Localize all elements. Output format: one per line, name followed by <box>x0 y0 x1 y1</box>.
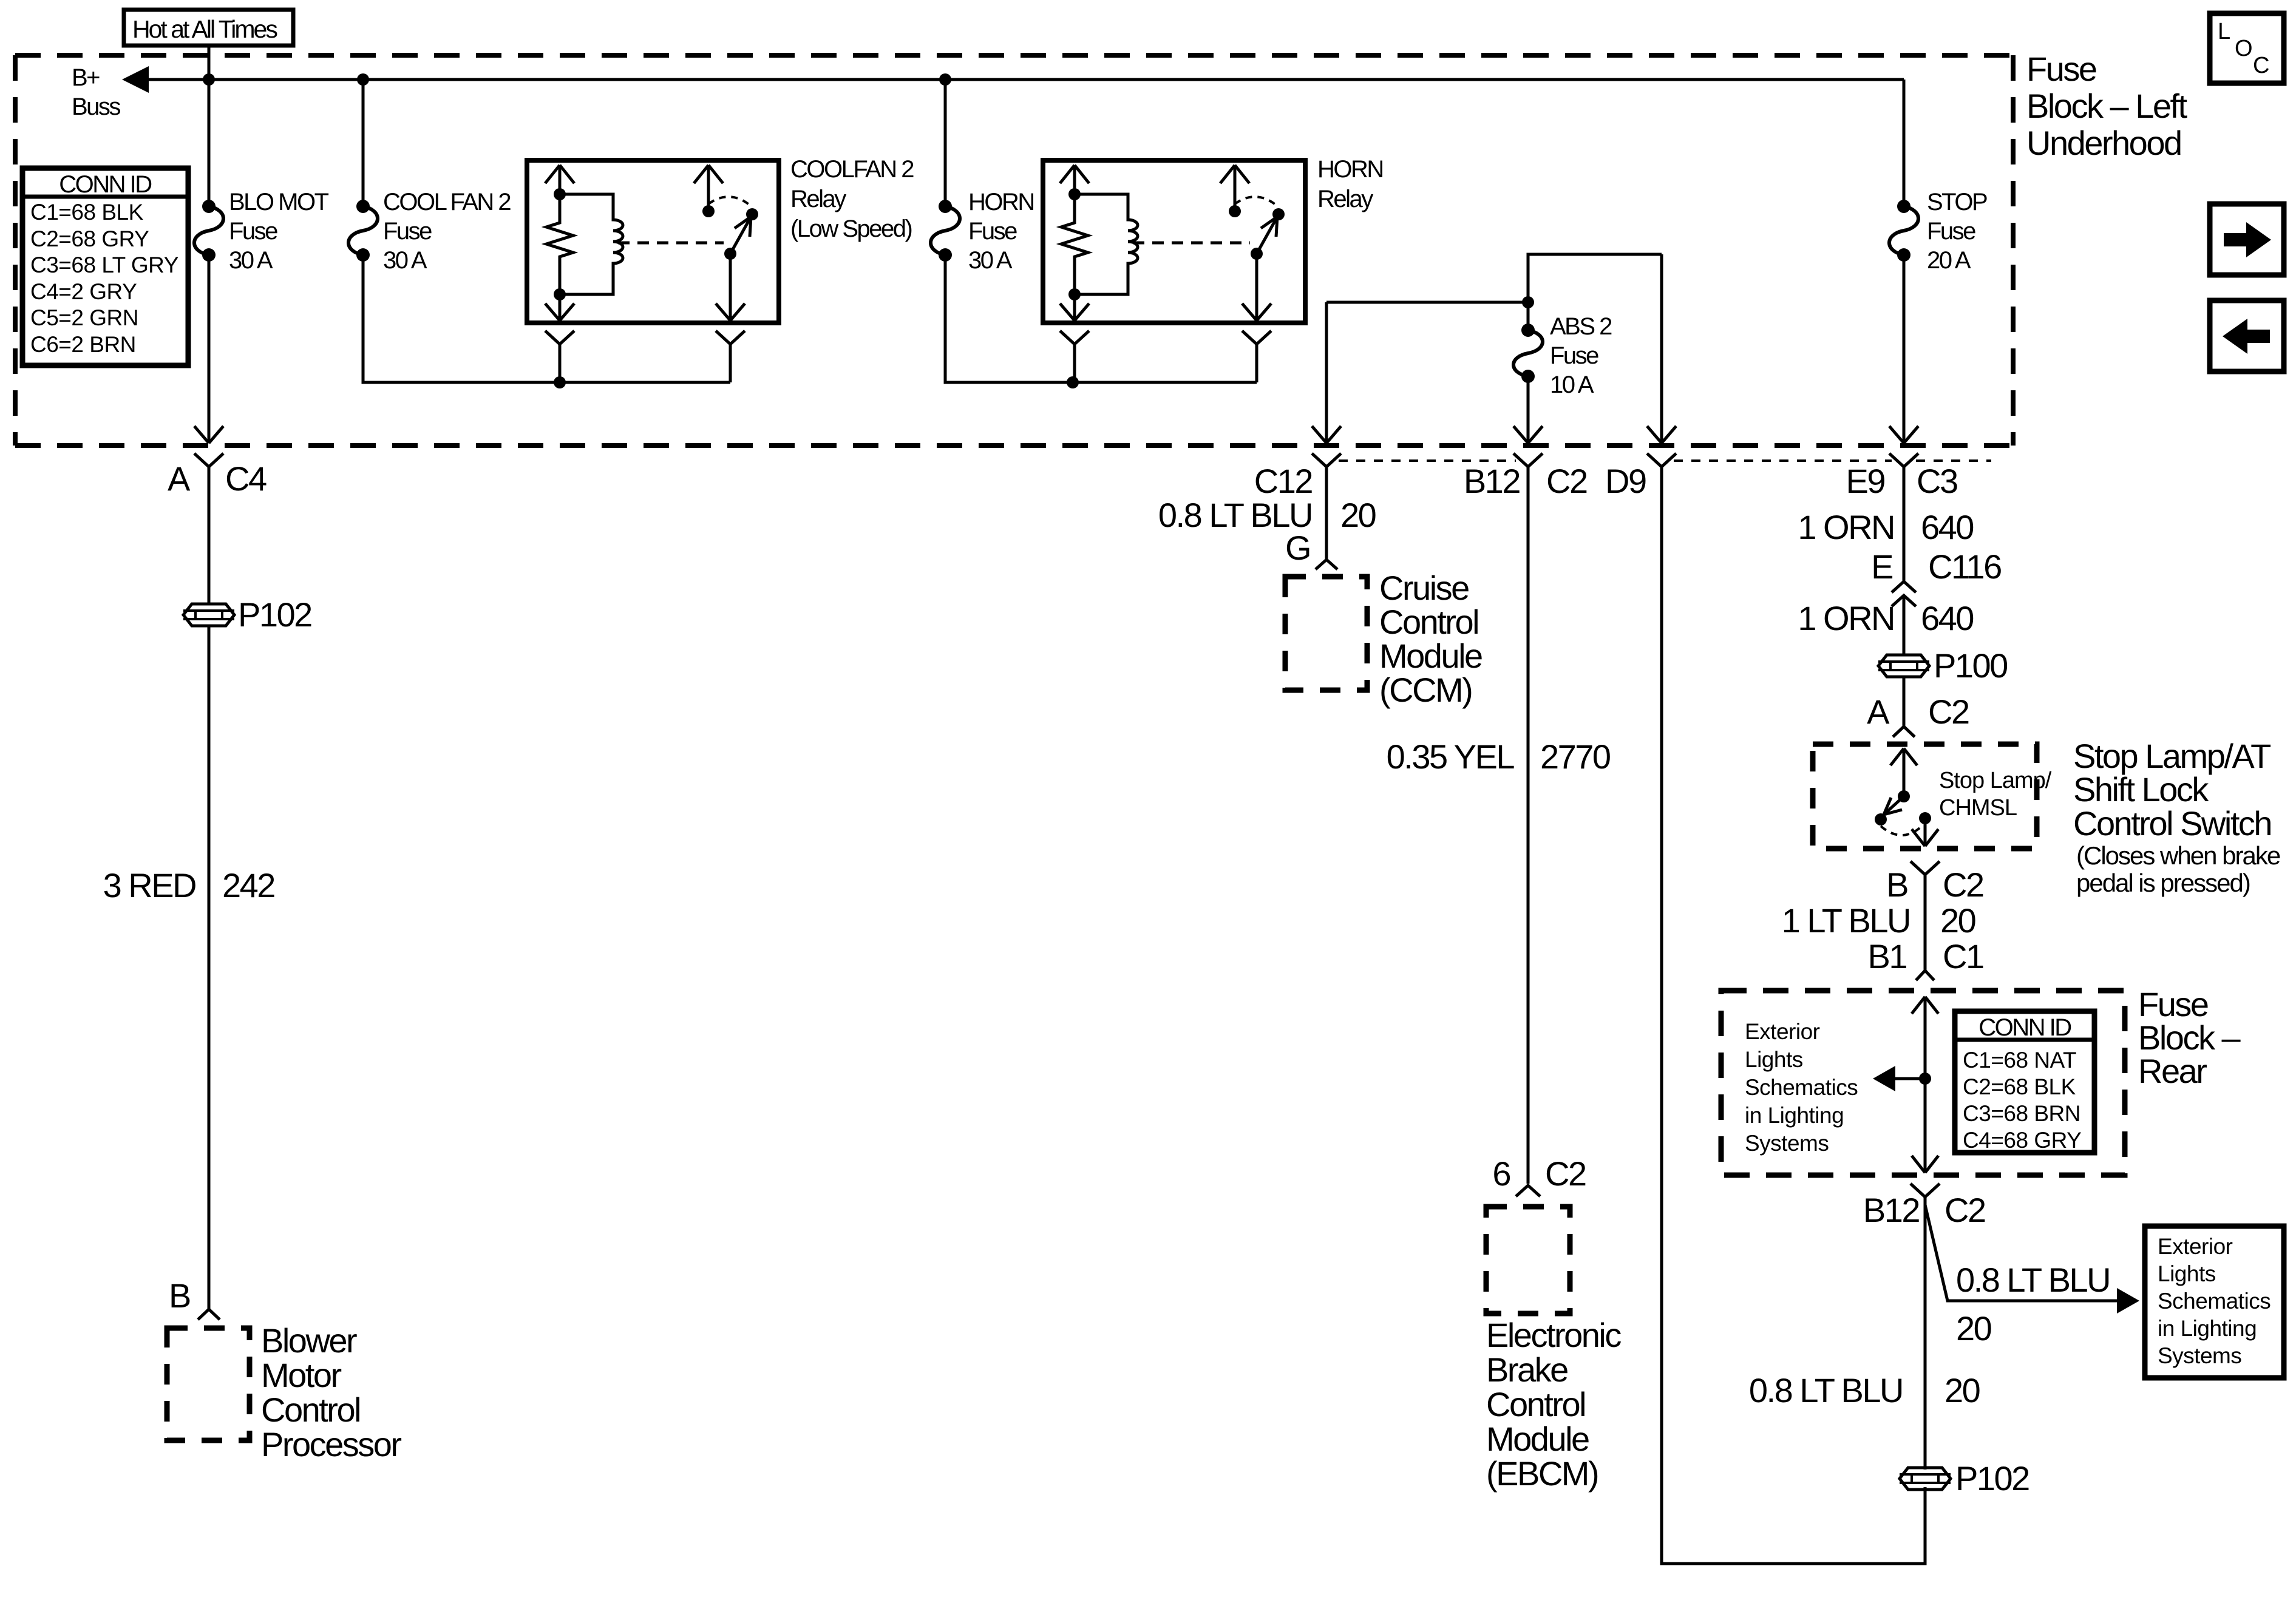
svg-text:Brake: Brake <box>1486 1351 1567 1389</box>
component: Electronic Brake Control Module dashed box <box>1486 1207 1570 1314</box>
wire: ABS2 fuse to connector B12 <box>1527 376 1530 443</box>
connector Y at B12/C2 <box>1513 453 1543 1184</box>
connector half at rear fuse block input <box>1916 971 1934 980</box>
inline connector C116 double chevron <box>1892 581 1916 606</box>
svg-text:G: G <box>1285 529 1310 567</box>
connector Y at D9 <box>1647 453 1676 467</box>
svg-text:Motor: Motor <box>261 1356 341 1394</box>
svg-text:B+: B+ <box>72 64 100 91</box>
arrow down at fuse block edge B12 <box>1513 426 1543 443</box>
svg-text:242: 242 <box>222 866 274 904</box>
svg-text:C2=68 BLK: C2=68 BLK <box>1963 1074 2076 1099</box>
wire: COOL FAN 2 fuse to coolfan bus <box>363 255 730 382</box>
contact travel dashed arc (stop lamp switch) <box>1881 825 1923 835</box>
wire: C12 drop <box>1325 302 1328 443</box>
svg-text:B12: B12 <box>1863 1191 1919 1229</box>
svg-text:C1=68 NAT: C1=68 NAT <box>1963 1048 2076 1073</box>
contact travel dashed arc (horn relay) <box>1235 197 1279 207</box>
switch input arrow up inside box <box>1890 748 1917 796</box>
svg-text:C4=68 GRY: C4=68 GRY <box>1963 1128 2081 1153</box>
horn relay switch arm <box>1251 248 1263 260</box>
coolfan relay coil bottom arrow down <box>545 294 574 320</box>
svg-text:B12: B12 <box>1464 462 1520 500</box>
svg-text:(CCM): (CCM) <box>1379 671 1472 709</box>
horn relay common bottom arrow down <box>1242 254 1271 320</box>
svg-text:in Lighting: in Lighting <box>1745 1103 1844 1128</box>
wire: STOP fuse to connector E9 <box>1903 255 1906 443</box>
svg-text:A: A <box>168 459 191 498</box>
wire: ABS2 fuse feed <box>1527 302 1530 330</box>
svg-text:30 A: 30 A <box>968 247 1013 274</box>
wire: P100 to stop lamp switch <box>1903 677 1906 726</box>
svg-text:Schematics: Schematics <box>2158 1289 2271 1314</box>
wire: D9 drop <box>1660 254 1663 443</box>
svg-text:C: C <box>2253 53 2269 78</box>
label: Fuse Block - Rear <box>2138 985 2241 1090</box>
connector Y below horn relay switch <box>1242 331 1271 382</box>
svg-text:Shift Lock: Shift Lock <box>2073 770 2209 808</box>
fuse: STOP 20A <box>1889 189 1987 274</box>
svg-text:C2: C2 <box>1546 462 1587 500</box>
label: Electronic Brake Control Module (EBCM) <box>1486 1316 1621 1493</box>
svg-text:Fuse: Fuse <box>2138 985 2208 1023</box>
svg-text:Block – Left: Block – Left <box>2026 87 2188 125</box>
svg-text:Exterior: Exterior <box>2158 1234 2233 1259</box>
horn relay coil nodes <box>1068 188 1081 200</box>
svg-text:HORN: HORN <box>968 189 1034 215</box>
svg-text:Control: Control <box>1379 603 1478 641</box>
svg-text:C3: C3 <box>1917 462 1957 500</box>
stop lamp switch contacts <box>1875 813 1887 825</box>
connector half at EBCM input <box>1516 1185 1540 1196</box>
svg-text:CONN ID: CONN ID <box>59 171 151 198</box>
svg-text:Fuse: Fuse <box>383 218 432 245</box>
wire: rear block internal down <box>1912 1079 1938 1173</box>
left arrow box <box>2210 300 2284 371</box>
wire: COOL FAN 2 fuse feed <box>362 80 365 206</box>
svg-text:CHMSL: CHMSL <box>1939 795 2017 821</box>
svg-text:C1=68 BLK: C1=68 BLK <box>30 200 144 225</box>
svg-text:6: 6 <box>1492 1154 1510 1193</box>
connector Y below coolfan relay switch <box>716 331 745 382</box>
wire: BLO MOT fuse to connector A/C4 <box>208 255 211 443</box>
svg-text:E: E <box>1871 547 1892 586</box>
fuse block rear dashed border <box>1721 991 2125 1175</box>
arrow down at fuse block edge C12 <box>1312 426 1341 443</box>
B+ Buss arrow wire <box>72 64 1904 120</box>
svg-text:P102: P102 <box>238 595 311 634</box>
svg-text:C2=68 GRY: C2=68 GRY <box>30 226 149 251</box>
connector half above switch <box>1893 727 1915 737</box>
svg-text:P100: P100 <box>1934 646 2007 685</box>
horn relay contact terminal arrow up <box>1220 165 1249 211</box>
connector Y at E9/C3 <box>1889 453 1918 581</box>
svg-text:Schematics: Schematics <box>1745 1075 1858 1100</box>
label: HORN Relay <box>1317 156 1383 212</box>
component: Cruise Control Module dashed box <box>1285 577 1367 690</box>
svg-text:Fuse: Fuse <box>2026 50 2096 88</box>
fuse: BLO MOT 30A <box>194 189 329 274</box>
svg-text:C2: C2 <box>1545 1154 1586 1193</box>
LOC box <box>2210 13 2284 83</box>
svg-text:20: 20 <box>1944 1371 1980 1409</box>
svg-text:Buss: Buss <box>72 93 120 120</box>
arrow down at fuse block edge A <box>194 426 223 443</box>
svg-text:Block –: Block – <box>2138 1019 2241 1057</box>
svg-text:Stop Lamp/AT: Stop Lamp/AT <box>2073 737 2271 775</box>
relay: COOLFAN 2 box <box>527 160 779 323</box>
svg-text:C2: C2 <box>1928 693 1969 731</box>
svg-text:Blower: Blower <box>261 1321 357 1360</box>
coolfan relay coil nodes <box>554 188 566 200</box>
svg-text:Control: Control <box>261 1391 360 1429</box>
svg-text:C4: C4 <box>225 459 267 498</box>
node: horn bus junction <box>1067 376 1079 388</box>
wire: BLO MOT fuse feed <box>208 80 211 206</box>
wire: branch to exterior lights schematics box <box>1925 1205 2119 1301</box>
coil winding (coolfan relay) <box>560 194 623 294</box>
svg-text:Module: Module <box>1486 1420 1589 1458</box>
svg-text:Underhood: Underhood <box>2026 124 2181 162</box>
connector Y at C12 <box>1312 453 1341 560</box>
label: Hot at All Times <box>124 10 293 46</box>
svg-text:P102: P102 <box>1955 1459 2029 1497</box>
fuse: HORN 30A <box>931 189 1034 274</box>
svg-text:pedal is pressed): pedal is pressed) <box>2076 869 2250 897</box>
mechanical linkage dashed (horn relay) <box>1133 242 1250 245</box>
coolfan relay common bottom arrow down <box>716 254 745 320</box>
switch output arrow down <box>1912 818 1938 846</box>
connector Y below coolfan relay coil <box>545 331 574 382</box>
horn relay contacts <box>1229 205 1241 217</box>
horn relay coil terminal arrow up <box>1060 165 1089 194</box>
svg-text:Lights: Lights <box>1745 1047 1803 1072</box>
svg-text:B: B <box>1886 866 1907 904</box>
svg-text:Fuse: Fuse <box>1550 342 1598 369</box>
right arrow box <box>2210 204 2284 275</box>
svg-text:30 A: 30 A <box>383 247 427 274</box>
svg-text:20 A: 20 A <box>1927 247 1971 274</box>
svg-text:Hot at All Times: Hot at All Times <box>132 15 277 43</box>
arrow down at fuse block edge E9 <box>1889 426 1918 443</box>
svg-text:1 ORN: 1 ORN <box>1798 599 1894 637</box>
label: Cruise Control Module (CCM) <box>1379 569 1482 709</box>
relay: HORN box <box>1043 160 1305 323</box>
svg-text:Processor: Processor <box>261 1425 401 1463</box>
coolfan relay coil terminal arrow up <box>545 165 574 194</box>
svg-text:1 LT BLU: 1 LT BLU <box>1782 901 1910 940</box>
coil winding (horn relay) <box>1075 194 1138 294</box>
wire: hot feed into B+ <box>208 44 211 80</box>
label: Fuse Block - Left Underhood <box>2026 50 2188 162</box>
arrow down at fuse block edge D9 <box>1647 426 1676 443</box>
svg-text:(Low Speed): (Low Speed) <box>790 215 911 242</box>
svg-text:Fuse: Fuse <box>229 218 277 245</box>
mechanical linkage dashed (coolfan relay) <box>618 242 724 245</box>
svg-text:O: O <box>2235 36 2252 61</box>
component: Blower Motor Control Processor dashed box <box>167 1328 250 1440</box>
svg-text:HORN: HORN <box>1317 156 1383 183</box>
svg-text:L: L <box>2218 19 2230 44</box>
svg-text:CONN ID: CONN ID <box>1978 1014 2071 1041</box>
svg-text:0.8 LT BLU: 0.8 LT BLU <box>1956 1261 2110 1299</box>
connector half at blower input <box>198 1309 220 1320</box>
wire: internal feed node to C12/ABS2/D9 <box>1326 254 1662 302</box>
svg-text:20: 20 <box>1956 1309 1991 1347</box>
svg-text:C4=2 GRY: C4=2 GRY <box>30 279 137 304</box>
label: Stop Lamp/AT Shift Lock Control Switch <box>2073 737 2271 842</box>
svg-text:20: 20 <box>1340 496 1376 534</box>
svg-text:Systems: Systems <box>1745 1131 1829 1156</box>
box: Exterior Lights Schematics in Lighting Systems <box>2145 1226 2284 1378</box>
thin dashed connector line C12-B12 <box>1339 459 1516 462</box>
splice P102 (right) <box>1900 1459 2029 1497</box>
connector Y at B12/C2 rear <box>1911 1184 1940 1470</box>
connector half at CCM input <box>1316 560 1337 569</box>
svg-text:ABS 2: ABS 2 <box>1550 313 1612 340</box>
svg-text:Module: Module <box>1379 637 1482 675</box>
node: B+ junction dots <box>203 73 215 86</box>
svg-text:Stop Lamp/: Stop Lamp/ <box>1939 768 2052 793</box>
svg-text:Cruise: Cruise <box>1379 569 1469 607</box>
coolfan relay contacts <box>702 205 715 217</box>
svg-text:A: A <box>1867 693 1890 731</box>
svg-text:in Lighting: in Lighting <box>2158 1316 2257 1341</box>
svg-text:Control: Control <box>1486 1385 1585 1423</box>
svg-text:C3=68 LT GRY: C3=68 LT GRY <box>30 253 178 277</box>
connector Y below horn relay coil <box>1060 331 1089 382</box>
coolfan relay contact terminal arrow up <box>694 165 723 211</box>
resistor (horn relay) <box>1061 194 1088 294</box>
svg-text:20: 20 <box>1940 901 1975 940</box>
svg-text:C116: C116 <box>1928 547 2001 586</box>
coolfan relay switch arm <box>724 248 736 260</box>
svg-text:COOL FAN 2: COOL FAN 2 <box>383 189 511 215</box>
svg-text:10 A: 10 A <box>1550 371 1594 398</box>
svg-text:640: 640 <box>1921 508 1973 546</box>
svg-text:0.8 LT BLU: 0.8 LT BLU <box>1749 1371 1903 1409</box>
wire: 3 RED 242 to blower <box>208 626 211 1309</box>
svg-text:2770: 2770 <box>1540 737 1610 776</box>
svg-text:STOP: STOP <box>1927 189 1987 215</box>
svg-text:0.35 YEL: 0.35 YEL <box>1387 737 1515 776</box>
splice P102 (left) <box>183 595 311 634</box>
connector Y below stop lamp switch <box>1911 861 1940 971</box>
component: Stop Lamp/AT Shift Lock Control Switch dashed box <box>1813 744 2037 849</box>
svg-text:C2: C2 <box>1944 1191 1985 1229</box>
svg-text:E9: E9 <box>1846 462 1885 500</box>
svg-text:640: 640 <box>1921 599 1973 637</box>
connector Y at A/C4 <box>194 453 223 604</box>
svg-text:C6=2 BRN: C6=2 BRN <box>30 332 136 357</box>
svg-text:(EBCM): (EBCM) <box>1486 1454 1598 1493</box>
fuse: COOL FAN 2 30A <box>348 189 511 274</box>
wire: HORN fuse to horn bus <box>945 255 1257 382</box>
node: ABS2 feed junction <box>1522 296 1534 308</box>
svg-text:Rear: Rear <box>2138 1052 2207 1090</box>
label: Blower Motor Control Processor <box>261 1321 401 1463</box>
wire: C116 to P100 <box>1903 597 1906 655</box>
svg-text:Exterior: Exterior <box>1745 1019 1820 1044</box>
svg-text:Relay: Relay <box>790 186 846 212</box>
svg-text:3 RED: 3 RED <box>103 866 195 904</box>
resistor (coolfan relay) <box>546 194 573 294</box>
node: rear block junction <box>1919 1073 1931 1085</box>
CONN ID table (left underhood) <box>22 168 188 365</box>
svg-text:Fuse: Fuse <box>1927 218 1975 245</box>
svg-text:C5=2 GRN: C5=2 GRN <box>30 305 138 330</box>
horn relay coil bottom arrow down <box>1060 294 1089 320</box>
svg-text:Systems: Systems <box>2158 1343 2241 1368</box>
svg-text:1 ORN: 1 ORN <box>1798 508 1894 546</box>
svg-text:Fuse: Fuse <box>968 218 1017 245</box>
svg-text:Relay: Relay <box>1317 186 1373 212</box>
svg-text:B1: B1 <box>1868 937 1907 975</box>
rear block input arrow up inside <box>1912 997 1938 1079</box>
label: COOLFAN 2 Relay (Low Speed) <box>790 156 914 242</box>
stop lamp switch arm <box>1898 790 1910 802</box>
wire: B+ to STOP fuse <box>1903 80 1906 206</box>
svg-text:COOLFAN 2: COOLFAN 2 <box>790 156 914 183</box>
splice P100 <box>1878 646 2007 685</box>
contact travel dashed arc (coolfan relay) <box>708 197 752 207</box>
fuse: ABS 2 10A <box>1513 313 1612 398</box>
wire: D9 long run to P102 splice <box>1662 467 1925 1564</box>
label: Exterior Lights Schematics in Lighting Systems (rear block) <box>1745 1019 1858 1156</box>
svg-text:C12: C12 <box>1254 462 1313 500</box>
node: coolfan bus junction <box>554 376 566 388</box>
svg-text:30 A: 30 A <box>229 247 273 274</box>
wire: rear block to exterior lights (left arrow) <box>1879 1077 1925 1080</box>
svg-text:C3=68 BRN: C3=68 BRN <box>1963 1101 2080 1126</box>
svg-text:Lights: Lights <box>2158 1261 2216 1286</box>
svg-text:C2: C2 <box>1943 866 1983 904</box>
CONN ID table (rear) <box>1955 1011 2094 1153</box>
svg-text:C1: C1 <box>1943 937 1983 975</box>
svg-text:Control Switch: Control Switch <box>2073 804 2271 842</box>
thin dashed connector line D9-E9 and beyond <box>1674 459 1892 462</box>
wire: HORN fuse feed <box>944 80 947 206</box>
svg-text:(Closes when brake: (Closes when brake <box>2076 841 2280 870</box>
svg-text:B: B <box>169 1276 190 1315</box>
svg-text:BLO MOT: BLO MOT <box>229 189 329 215</box>
fuse block left underhood dashed border <box>15 55 2013 446</box>
svg-text:Electronic: Electronic <box>1486 1316 1621 1354</box>
svg-text:D9: D9 <box>1605 462 1646 500</box>
